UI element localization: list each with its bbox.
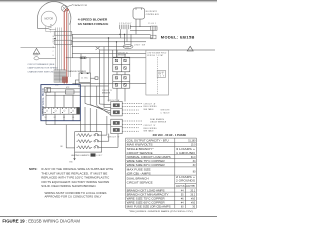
svg-text:BRANCH CKT MIN AMPACITY: BRANCH CKT MIN AMPACITY	[127, 194, 170, 197]
svg-text:2 LOADS +: 2 LOADS +	[176, 176, 196, 179]
element output wires	[75, 116, 119, 158]
red wires	[64, 8, 69, 83]
field wiring dashes circuit B	[122, 121, 142, 131]
svg-text:COIL OUTPUT CAPACITY - BTU: COIL OUTPUT CAPACITY - BTU	[127, 140, 169, 143]
svg-text:CIRCUIT SERVICE: CIRCUIT SERVICE	[150, 121, 167, 123]
svg-text:240 VAC - 60 HZ - 1 PHASE: 240 VAC - 60 HZ - 1 PHASE	[153, 133, 187, 137]
sequencer terminal strip	[43, 107, 80, 114]
thermostat side note	[161, 110, 170, 115]
svg-text:CHANGEOVER SWITCH): CHANGEOVER SWITCH)	[27, 70, 53, 73]
svg-text:CAPACITOR: CAPACITOR	[73, 4, 88, 7]
svg-text:3 LOADS +: 3 LOADS +	[176, 148, 196, 151]
svg-text:BK: BK	[53, 36, 55, 38]
svg-text:MODEL: EB15B: MODEL: EB15B	[161, 35, 195, 39]
connector pin row	[119, 25, 130, 42]
svg-text:CIRCUIT SERVICE: CIRCUIT SERVICE	[127, 153, 154, 155]
svg-text:5 AMP BLWR MOTOR SPEED: 5 AMP BLWR MOTOR SPEED	[27, 67, 58, 70]
harness terminal block	[54, 70, 65, 82]
svg-text:MAX FUSE SIZE (OR CB) AMPS: MAX FUSE SIZE (OR CB) AMPS	[127, 206, 172, 209]
svg-text:CAM: CAM	[125, 46, 129, 49]
title: 4-speed blower	[78, 18, 109, 26]
blower wheel / run capacitor	[61, 5, 73, 12]
svg-text:LIMIT: LIMIT	[96, 155, 102, 157]
svg-text:FIGURE 19 : EB15B WIRING DIAGR: FIGURE 19 : EB15B WIRING DIAGRAM	[2, 219, 80, 224]
ground wire left	[21, 46, 56, 48]
wires control box to elements	[46, 121, 111, 148]
svg-text:CIRCUIT 'B': CIRCUIT 'B'	[108, 136, 121, 138]
svg-text:BK: BK	[50, 25, 52, 27]
svg-text:51,180: 51,180	[188, 141, 196, 143]
svg-text:HEATING ELEMENTS: HEATING ELEMENTS	[71, 154, 90, 157]
svg-text:M1: M1	[45, 117, 47, 119]
svg-text:GS SERIES FURNACE: GS SERIES FURNACE	[78, 22, 109, 26]
control box label	[146, 11, 160, 16]
heating elements box	[75, 132, 102, 152]
sequencer terminal labels	[45, 117, 75, 119]
svg-text:APPROVED FOR CU CONDUCTORS ONL: APPROVED FOR CU CONDUCTORS ONLY	[45, 195, 102, 199]
svg-text:WIRE SIZE 60°C COPPER: WIRE SIZE 60°C COPPER	[127, 203, 165, 205]
svg-text:NOTE:: NOTE:	[29, 167, 37, 171]
blower housing	[38, 2, 71, 29]
svg-text:15.0: 15.0	[191, 145, 196, 147]
svg-text:MOTOR: MOTOR	[45, 19, 54, 21]
svg-text:SINGLE BRANCH *: SINGLE BRANCH *	[127, 148, 154, 151]
svg-text:PLUG 2: PLUG 2	[148, 23, 156, 25]
svg-text:Y: Y	[50, 32, 51, 34]
svg-text:M4: M4	[72, 117, 74, 119]
svg-text:THE UNIT MUST BE REPLACED, IT: THE UNIT MUST BE REPLACED, IT MUST BE	[41, 171, 107, 175]
svg-text:2 GROUNDS: 2 GROUNDS	[176, 181, 196, 183]
svg-text:WIRE SIZE 75°C COPPER: WIRE SIZE 75°C COPPER	[127, 161, 165, 163]
svg-text:24 V: 24 V	[158, 76, 165, 78]
svg-text:BRANCH CKT LOAD AMPS: BRANCH CKT LOAD AMPS	[127, 189, 166, 192]
svg-text:26.2: 26.2	[190, 195, 195, 197]
limit switch box	[91, 153, 96, 156]
svg-text:IF ANY OF THE ORIGINAL WIRE AS: IF ANY OF THE ORIGINAL WIRE AS SUPPLIED …	[41, 167, 113, 171]
wire labels left of harness	[50, 25, 73, 57]
dual branch label	[150, 118, 167, 124]
table row texts	[127, 140, 172, 209]
fuse F1	[80, 57, 86, 59]
svg-text:FIELD WIRING: FIELD WIRING	[144, 106, 158, 108]
ground arrow	[73, 158, 75, 160]
upper horizontal wires	[66, 19, 215, 107]
svg-text:*REQUIRES JUMPER BARS (P/N S35: *REQUIRES JUMPER BARS (P/N S350-C2V)	[129, 210, 193, 213]
plug P3	[151, 26, 157, 30]
field wiring dashes circuit A	[122, 103, 142, 113]
motor plug P1	[54, 32, 72, 36]
svg-text:CIRCUIT 'B': CIRCUIT 'B'	[144, 125, 157, 127]
svg-text:SOLID. FIELD WIRING SHOWN BROK: SOLID. FIELD WIRING SHOWN BROKEN.	[41, 184, 96, 188]
warning triangle 1	[33, 48, 40, 54]
svg-text:SEE NOTE: SEE NOTE	[161, 110, 170, 112]
svg-text:DUAL BRANCH: DUAL BRANCH	[127, 178, 149, 181]
wiring codes note	[45, 191, 107, 199]
svg-text:1 2 3 4 5 6 7: 1 2 3 4 5 6 7	[119, 23, 132, 25]
svg-text:20.1: 20.1	[190, 190, 195, 192]
svg-text:CONTROL BOX: CONTROL BOX	[146, 14, 160, 16]
svg-text:64.0: 64.0	[191, 157, 196, 159]
svg-text:FIELD WIRING: FIELD WIRING	[144, 128, 158, 130]
svg-text:WIRING MUST CONFORM TO LOCAL C: WIRING MUST CONFORM TO LOCAL CODES	[45, 191, 107, 195]
svg-text:MAX KW/VOLTS: MAX KW/VOLTS	[127, 144, 154, 147]
page top edge band	[0, 0, 217, 1]
lug block circuit B	[111, 119, 122, 133]
svg-text:CIRCUIT SERVICE: CIRCUIT SERVICE	[127, 182, 154, 184]
fan wires to lug A	[85, 104, 111, 116]
low voltage wires to t-stat	[72, 83, 145, 131]
relay coil box	[65, 90, 74, 94]
svg-text:DUAL BRANCH: DUAL BRANCH	[150, 118, 165, 121]
red wire connector	[62, 77, 68, 83]
bottom rule	[0, 215, 217, 218]
svg-text:OR ITS EQUIVALENT. FACTORY WIR: OR ITS EQUIVALENT. FACTORY WIRING SHOWN	[41, 180, 109, 184]
table value texts	[176, 141, 196, 209]
svg-text:(OR CB) - AMPS: (OR CB) - AMPS	[127, 172, 152, 175]
svg-text:CKT'A'-CKT'B': CKT'A'-CKT'B'	[176, 185, 196, 188]
circuit breaker B	[113, 75, 130, 88]
svg-text:BL: BL	[50, 27, 52, 29]
svg-text:24 VAC: 24 VAC	[81, 77, 89, 80]
motor plug P2	[54, 40, 72, 44]
breaker interconnects	[109, 57, 126, 102]
spec table	[126, 138, 197, 208]
svg-text:WIRING T-STAT: WIRING T-STAT	[147, 54, 163, 57]
svg-text:CIRCUIT BREAKER (SEE: CIRCUIT BREAKER (SEE	[27, 63, 55, 66]
svg-text:WIRE SIZE 75°C COPPER: WIRE SIZE 75°C COPPER	[127, 199, 165, 201]
svg-text:LIMIT SW: LIMIT SW	[134, 44, 145, 46]
aux relay box	[44, 88, 50, 93]
svg-text:REPLACED WITH TYPE 105°C THERM: REPLACED WITH TYPE 105°C THERMOPLASTIC	[41, 176, 109, 180]
svg-text:WIRE SIZE 60°C COPPER: WIRE SIZE 60°C COPPER	[127, 165, 165, 167]
wires inside control box	[46, 89, 80, 108]
junction dot	[54, 38, 55, 39]
left note text	[27, 63, 58, 74]
warning triangle 2	[187, 46, 193, 51]
svg-text:Y: Y	[53, 43, 54, 45]
motor wire harness	[46, 13, 71, 77]
heating element HE1	[77, 133, 102, 136]
heating element HE2	[77, 139, 102, 142]
oval connector on wire	[123, 45, 133, 49]
terminal box TB1	[151, 35, 156, 39]
svg-text:NOMINAL CIRCUIT LOAD AMPS: NOMINAL CIRCUIT LOAD AMPS	[127, 156, 172, 159]
svg-text:1 GROUND: 1 GROUND	[176, 153, 195, 155]
svg-text:H: H	[53, 55, 54, 57]
sequencer heater labels	[55, 84, 70, 89]
motor M1	[41, 11, 56, 26]
blower control box	[133, 8, 145, 19]
breaker switch symbol	[34, 53, 38, 55]
strip output stubs	[46, 114, 73, 121]
svg-text:CIRCUIT 'B': CIRCUIT 'B'	[102, 90, 113, 92]
svg-text:MAX FUSE SIZE: MAX FUSE SIZE	[127, 168, 152, 171]
thermostat box	[146, 50, 169, 95]
heating element HE3	[77, 145, 102, 148]
junction dots	[108, 34, 125, 43]
control junction box (blue)	[41, 85, 80, 121]
